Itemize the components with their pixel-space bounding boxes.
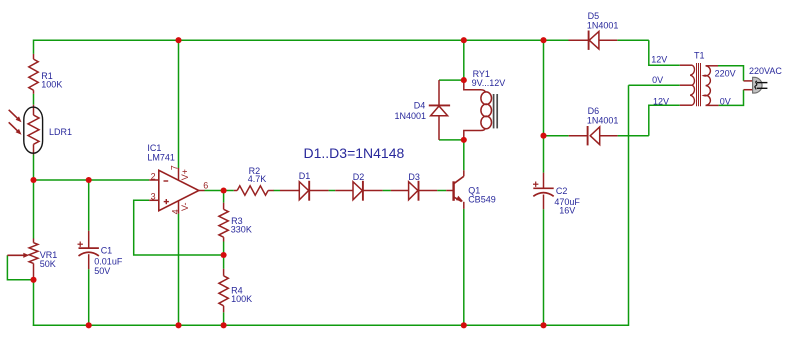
- junction relay top / D4: [461, 77, 467, 83]
- wire top rail to relay: [463, 40, 465, 80]
- svg-text:0V: 0V: [652, 75, 663, 85]
- wire C2 bottom net: [543, 209, 545, 325]
- potentiometer VR1: [33, 239, 35, 243]
- svg-text:V-: V-: [180, 202, 190, 211]
- junction VR1 wiper: [30, 277, 36, 283]
- wire D6 to jog: [618, 135, 649, 137]
- wire VR1 bottom to ground rail: [33, 280, 35, 326]
- wire R4 to ground: [223, 312, 225, 325]
- junction output / R3: [221, 187, 227, 193]
- svg-text:C1: C1: [101, 246, 113, 256]
- wire op-amp output node: [204, 190, 233, 192]
- wire D2 to D3: [383, 190, 391, 192]
- diode D3: [391, 190, 409, 192]
- wire relay to Q1 collector: [463, 140, 465, 170]
- svg-text:D4: D4: [414, 101, 426, 111]
- wire Q1 emitter to ground: [463, 209, 465, 325]
- wire D5 to jog: [617, 39, 649, 41]
- wire T1 primary bottom to plug: [719, 90, 744, 106]
- junction ground / Q1 emitter: [461, 322, 467, 328]
- wire pin 3 feedback loop: [134, 200, 224, 255]
- wire D4 bottom link: [439, 139, 464, 141]
- wire T1 primary top to plug: [718, 66, 744, 81]
- junction C2 column / D6: [540, 133, 546, 139]
- junction ground / pin 4: [175, 322, 181, 328]
- resistor R2: [234, 190, 237, 192]
- wire VR1 wiper loop: [7, 255, 33, 279]
- junction relay bottom / D4: [461, 137, 467, 143]
- diode D4: [438, 80, 440, 105]
- LDR1 light arrow 1: [9, 110, 18, 119]
- wire divider node to pin 2: [34, 179, 150, 181]
- svg-text:100K: 100K: [231, 294, 252, 304]
- wire top supply rail: [34, 39, 569, 41]
- wire output node to R3: [223, 191, 225, 203]
- svg-text:V+: V+: [180, 169, 190, 180]
- svg-text:220VAC: 220VAC: [749, 66, 782, 76]
- wire node to D6: [544, 135, 569, 137]
- svg-text:330K: 330K: [231, 225, 252, 235]
- svg-text:100K: 100K: [41, 79, 62, 89]
- diode D5: [569, 39, 589, 41]
- svg-text:LM741: LM741: [147, 152, 175, 162]
- junction R3 / R4 / pin 3: [221, 252, 227, 258]
- junction divider node: [30, 177, 36, 183]
- transistor Q1: [446, 190, 453, 192]
- transformer T1 core: [696, 63, 698, 106]
- svg-text:1N4001: 1N4001: [587, 115, 619, 125]
- op-amp IC1: [159, 170, 199, 210]
- transformer T1 secondary winding: [680, 64, 693, 66]
- svg-text:LDR1: LDR1: [49, 127, 72, 137]
- capacitor C2: [543, 173, 545, 189]
- wire C1 top lead net: [88, 180, 90, 231]
- wire node to R4: [223, 255, 225, 269]
- junction ground / R4: [221, 322, 227, 328]
- wire R3 to node: [223, 242, 225, 256]
- wire left column top: [33, 40, 35, 54]
- wire 0V horizontal to T1: [629, 84, 680, 86]
- junction ground / C1: [86, 322, 92, 328]
- diode D1: [280, 190, 299, 192]
- svg-text:50K: 50K: [40, 259, 56, 269]
- junction C1 / pin 2 net: [86, 177, 92, 183]
- svg-text:220V: 220V: [715, 69, 736, 79]
- relay RY1 coil: [464, 80, 486, 92]
- svg-text:0.01uF: 0.01uF: [94, 256, 123, 266]
- svg-text:D1: D1: [299, 171, 311, 181]
- svg-text:C2: C2: [556, 186, 568, 196]
- resistor R3: [223, 203, 225, 210]
- svg-text:3: 3: [151, 192, 156, 202]
- svg-text:D3: D3: [408, 172, 420, 182]
- LDR1 light arrow 2: [9, 122, 18, 131]
- wire LDR1 to VR1 column: [33, 155, 35, 239]
- junction top rail / pin 7: [175, 37, 181, 43]
- svg-text:16V: 16V: [559, 206, 575, 216]
- LDR LDR1: [33, 105, 35, 115]
- svg-text:50V: 50V: [94, 266, 110, 276]
- connector 220VAC plug: [744, 80, 753, 82]
- svg-text:D1..D3=1N4148: D1..D3=1N4148: [304, 145, 405, 161]
- svg-text:6: 6: [203, 180, 208, 190]
- wire top rail to pin 7: [178, 40, 180, 168]
- wire D1 to D2: [329, 190, 336, 192]
- wire D3 to Q1 base: [437, 190, 446, 192]
- svg-text:2: 2: [151, 171, 156, 181]
- wire R2 to D1: [274, 190, 281, 192]
- svg-text:1N4001: 1N4001: [394, 111, 426, 121]
- junction top rail / relay: [461, 37, 467, 43]
- junction ground / C2: [540, 322, 546, 328]
- resistor R1: [33, 54, 35, 59]
- wire R1 to LDR1: [33, 94, 35, 105]
- svg-text:4.7K: 4.7K: [248, 174, 267, 184]
- svg-text:12V: 12V: [653, 97, 669, 107]
- transformer T1 primary winding: [704, 66, 711, 106]
- svg-text:D2: D2: [353, 172, 365, 182]
- wire D6 jog up to 12V: [649, 105, 680, 136]
- wire pin 4 to ground: [178, 214, 180, 326]
- junction top rail / C2 column: [540, 37, 546, 43]
- diode D6: [569, 135, 588, 137]
- svg-text:0V: 0V: [720, 96, 731, 106]
- svg-text:12V: 12V: [651, 55, 667, 65]
- wire bottom ground rail: [33, 324, 629, 326]
- capacitor C1: [88, 231, 90, 248]
- svg-text:9V...12V: 9V...12V: [472, 78, 506, 88]
- svg-text:CB549: CB549: [468, 195, 496, 205]
- svg-text:T1: T1: [694, 51, 705, 61]
- wire D4 top link: [439, 79, 464, 81]
- resistor R4: [223, 269, 225, 276]
- svg-text:7: 7: [169, 165, 179, 170]
- diode D2: [335, 190, 353, 192]
- wire C2 top net: [543, 40, 545, 173]
- wire 0V column: [628, 85, 630, 326]
- relay RY1 core: [493, 94, 495, 128]
- wire D5 jog down to 12V: [649, 40, 680, 65]
- svg-text:1N4001: 1N4001: [587, 20, 619, 30]
- wire C1 bottom net: [88, 269, 90, 325]
